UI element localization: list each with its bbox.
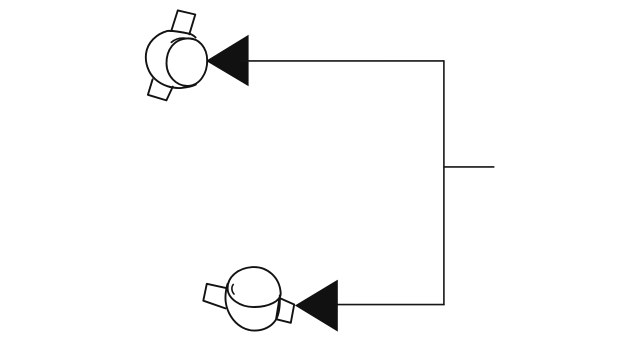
socket 1 bottom tab [148,79,173,100]
socket 2 dome [228,267,281,307]
socket 2 left tab [203,284,227,309]
socket 1 dome [166,38,207,86]
arrow 2 [295,280,338,332]
socket 2 body [226,284,280,331]
wire top [240,60,444,62]
wire bottom [330,304,444,306]
socket 2 rim arc [232,285,234,295]
socket 1 body [146,31,196,88]
wire tick [444,166,494,168]
arrow 1 [206,35,249,86]
socket 1 rim arc [171,38,193,42]
socket 1 top tab [171,10,195,34]
socket 2 right tab [276,298,294,323]
wire vertical [443,61,445,305]
